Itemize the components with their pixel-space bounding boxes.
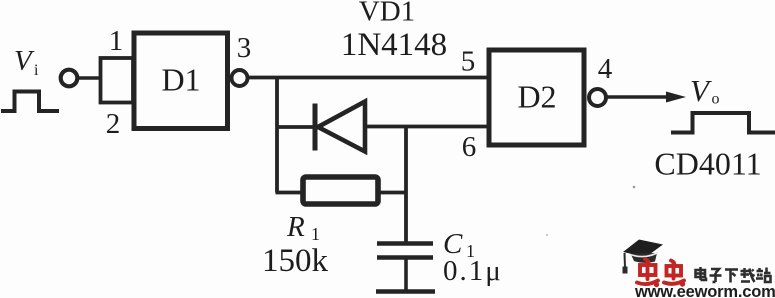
svg-text:2: 2	[106, 108, 121, 140]
scan speckle	[633, 186, 636, 189]
resistor R1	[303, 177, 378, 204]
watermark cap tassel	[624, 253, 627, 267]
wire input to tie box	[79, 76, 100, 80]
label R1	[286, 211, 320, 244]
watermark graduation cap body	[631, 253, 658, 263]
wire diode right to pin6	[364, 125, 487, 129]
svg-text:V: V	[690, 73, 712, 108]
svg-text:4: 4	[598, 53, 613, 85]
watermark text zi (sub)	[710, 269, 722, 282]
inverter bubble pin 3	[232, 70, 248, 86]
wire left of R1	[276, 191, 304, 195]
inverter bubble pin 4	[589, 89, 606, 106]
svg-text:www.eeworm.com: www.eeworm.com	[634, 283, 775, 298]
svg-text:CD4011: CD4011	[654, 146, 761, 182]
svg-text:0.1μ: 0.1μ	[443, 255, 503, 287]
wire pin3 to pin5	[248, 76, 488, 80]
watermark chong character 2	[664, 261, 684, 286]
watermark graduation cap silver band	[630, 253, 658, 257]
svg-text:150k: 150k	[262, 243, 329, 279]
watermark text zhan (station)	[756, 268, 771, 283]
svg-text:VD1: VD1	[359, 0, 415, 28]
svg-text:R: R	[286, 211, 305, 243]
capacitor C1 bottom plate	[377, 255, 433, 259]
svg-text:i: i	[34, 62, 39, 79]
svg-text:1N4148: 1N4148	[341, 27, 447, 63]
wire vertical to capacitor	[404, 127, 408, 244]
watermark text xia (down)	[725, 270, 738, 283]
gate D2	[489, 50, 584, 145]
watermark cap tassel knob	[623, 267, 628, 274]
svg-text:D1: D1	[161, 62, 200, 98]
input terminal circle	[61, 70, 78, 87]
svg-text:1: 1	[109, 25, 124, 57]
diode VD1 triangle	[318, 102, 365, 152]
node Vo label	[690, 73, 720, 108]
arrowhead	[666, 92, 686, 103]
wire junction vertical down from pin3 net	[275, 78, 279, 193]
label C1	[443, 228, 475, 261]
wire capacitor stem	[404, 258, 408, 291]
svg-text:1: 1	[311, 224, 320, 244]
svg-text:o: o	[712, 91, 720, 108]
input pulse waveform	[1, 92, 59, 112]
ground line	[376, 289, 435, 293]
watermark text zai (load)	[741, 268, 755, 282]
wire tie box joining pins 1 and 2	[101, 58, 134, 103]
watermark chong character 1	[637, 259, 658, 286]
node Vi label	[14, 45, 39, 79]
wire pin 4 output	[607, 95, 672, 98]
capacitor C1 top plate	[377, 241, 433, 245]
svg-text:3: 3	[237, 32, 252, 64]
svg-text:V: V	[14, 45, 35, 77]
diode VD1 cathode bar	[313, 104, 318, 151]
watermark text dian (electric)	[696, 267, 707, 280]
svg-text:5: 5	[461, 46, 476, 78]
svg-text:6: 6	[462, 131, 477, 163]
watermark graduation cap board	[623, 240, 663, 258]
wire right of R1	[378, 191, 406, 195]
svg-text:D2: D2	[517, 79, 556, 115]
wire diode left	[277, 125, 314, 129]
output pulse waveform	[671, 113, 775, 133]
gate D1	[134, 33, 228, 129]
